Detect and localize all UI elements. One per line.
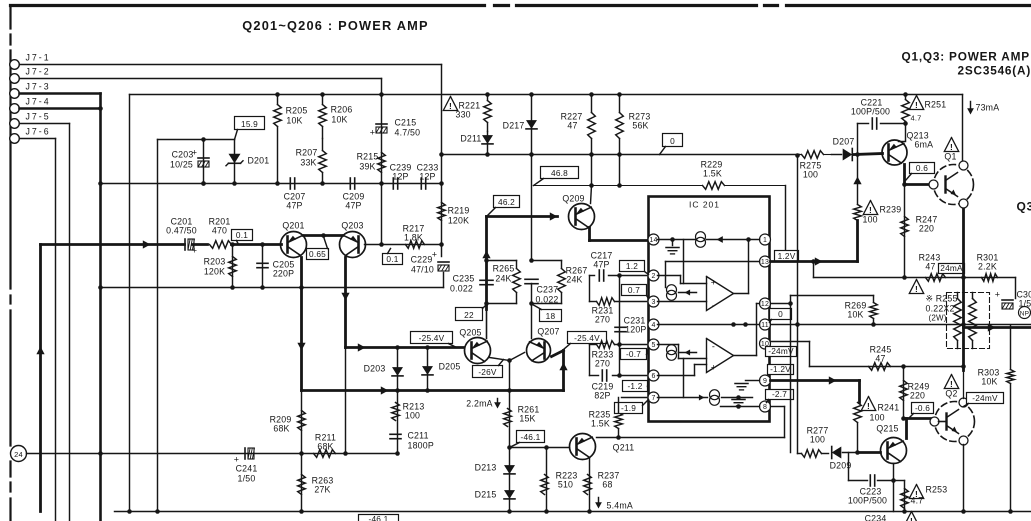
svg-text:0.65: 0.65 (309, 249, 326, 259)
svg-text:J7-2: J7-2 (26, 67, 51, 77)
svg-text:120K: 120K (448, 216, 469, 226)
svg-text:47: 47 (567, 121, 577, 131)
svg-text:24: 24 (14, 450, 23, 459)
svg-text:11: 11 (761, 322, 769, 329)
svg-text:1.8K: 1.8K (404, 233, 423, 243)
svg-text:C237: C237 (537, 285, 559, 295)
svg-text:4.7: 4.7 (911, 114, 922, 123)
svg-text:D203: D203 (364, 364, 386, 374)
svg-text:C215: C215 (395, 118, 417, 128)
svg-text:14: 14 (649, 237, 657, 244)
svg-text:-26V: -26V (478, 367, 497, 377)
svg-text:330: 330 (456, 110, 471, 120)
svg-text:+: + (432, 250, 437, 260)
svg-text:100P/500: 100P/500 (851, 107, 890, 117)
svg-text:4.7/50: 4.7/50 (395, 128, 421, 138)
svg-text:J7-1: J7-1 (26, 53, 51, 63)
svg-text:!: ! (867, 401, 870, 411)
svg-text:-1.9: -1.9 (621, 403, 636, 413)
svg-text:Q201~Q206 : POWER AMP: Q201~Q206 : POWER AMP (242, 18, 429, 33)
svg-text:2SC3546(A): 2SC3546(A) (958, 64, 1031, 78)
svg-text:10K: 10K (981, 377, 997, 387)
svg-text:12: 12 (761, 301, 769, 308)
svg-text:R207: R207 (296, 148, 318, 158)
svg-text:0: 0 (670, 136, 675, 146)
svg-text:1.5K: 1.5K (591, 419, 610, 429)
svg-text:Q215: Q215 (876, 424, 898, 434)
svg-text:D217: D217 (503, 121, 525, 131)
svg-text:R203: R203 (204, 257, 226, 267)
svg-text:27K: 27K (314, 485, 330, 495)
svg-text:0.22X2: 0.22X2 (926, 304, 955, 314)
svg-text:120P: 120P (625, 325, 646, 335)
svg-text:D205: D205 (439, 362, 461, 372)
svg-text:-46.1: -46.1 (369, 514, 389, 521)
svg-text:46.8: 46.8 (551, 168, 568, 178)
svg-text:68K: 68K (273, 424, 289, 434)
svg-text:100: 100 (810, 435, 825, 445)
svg-text:!: ! (950, 379, 953, 389)
svg-text:!: ! (915, 284, 918, 294)
svg-text:R241: R241 (878, 403, 900, 413)
svg-text:C203: C203 (172, 150, 194, 160)
svg-text:※ R255: ※ R255 (926, 294, 958, 304)
svg-text:47P: 47P (345, 201, 361, 211)
svg-text:-46.1: -46.1 (521, 432, 541, 442)
svg-text:NP: NP (1020, 311, 1029, 318)
svg-text:R215: R215 (357, 152, 379, 162)
svg-text:-2.7: -2.7 (772, 389, 787, 399)
svg-text:J7-3: J7-3 (26, 82, 51, 92)
svg-text:24K: 24K (566, 275, 582, 285)
svg-text:Q1,Q3: POWER AMP: Q1,Q3: POWER AMP (902, 50, 1030, 64)
svg-text:Q203: Q203 (341, 221, 363, 231)
svg-text:220: 220 (919, 224, 934, 234)
svg-text:D215: D215 (475, 490, 497, 500)
svg-text:68: 68 (602, 480, 612, 490)
svg-text:R253: R253 (926, 485, 948, 495)
svg-text:-24mV: -24mV (972, 393, 998, 403)
svg-text:470: 470 (212, 226, 227, 236)
svg-text:0.022: 0.022 (450, 284, 473, 294)
svg-text:1/50: 1/50 (238, 474, 256, 484)
svg-text:-1.2: -1.2 (627, 381, 642, 391)
svg-text:1800P: 1800P (408, 441, 434, 451)
svg-text:D211: D211 (460, 134, 481, 144)
svg-text:5.4mA: 5.4mA (607, 501, 633, 511)
svg-text:15.9: 15.9 (241, 119, 258, 129)
svg-text:R265: R265 (493, 264, 515, 274)
svg-text:J7-5: J7-5 (26, 112, 51, 122)
svg-text:24K: 24K (495, 274, 511, 284)
svg-text:220: 220 (910, 391, 925, 401)
svg-text:270: 270 (595, 359, 610, 369)
svg-text:!: ! (915, 100, 918, 110)
svg-text:33K: 33K (300, 158, 316, 168)
svg-text:0: 0 (778, 309, 783, 319)
svg-text:IC 201: IC 201 (689, 200, 720, 210)
svg-text:510: 510 (558, 480, 573, 490)
svg-text:13: 13 (761, 259, 769, 266)
svg-text:47P: 47P (286, 201, 302, 211)
svg-text:+: + (711, 278, 716, 288)
svg-text:3: 3 (651, 299, 655, 306)
svg-text:-25.4V: -25.4V (419, 333, 445, 343)
svg-text:D213: D213 (475, 463, 497, 473)
svg-text:C229: C229 (411, 255, 433, 265)
svg-text:+: + (370, 128, 375, 138)
svg-text:1.5K: 1.5K (703, 169, 722, 179)
svg-text:-: - (712, 301, 715, 311)
svg-text:7: 7 (651, 395, 655, 402)
svg-text:J7-6: J7-6 (26, 127, 51, 137)
svg-text:9: 9 (763, 378, 767, 385)
svg-text:!: ! (910, 516, 913, 521)
svg-text:1.2: 1.2 (626, 261, 638, 271)
svg-text:0.1: 0.1 (236, 230, 248, 240)
svg-text:6: 6 (651, 373, 655, 380)
svg-text:Q1: Q1 (944, 152, 956, 162)
svg-text:47P: 47P (593, 260, 609, 270)
svg-text:Q209: Q209 (562, 194, 584, 204)
svg-text:R206: R206 (331, 105, 353, 115)
svg-text:39K: 39K (359, 162, 375, 172)
svg-text:2: 2 (651, 273, 655, 280)
svg-text:120K: 120K (204, 267, 225, 277)
svg-text:C235: C235 (453, 274, 475, 284)
svg-text:0.6: 0.6 (916, 163, 928, 173)
svg-text:R205: R205 (286, 106, 308, 116)
svg-text:Q3: Q3 (1017, 200, 1031, 214)
svg-text:22: 22 (464, 310, 474, 320)
svg-text:12P: 12P (392, 172, 408, 182)
svg-text:D201: D201 (248, 156, 270, 166)
svg-text:4.7: 4.7 (911, 496, 924, 506)
svg-text:24mA: 24mA (940, 263, 963, 273)
svg-text:1.2V: 1.2V (778, 251, 796, 261)
svg-text:220P: 220P (273, 269, 294, 279)
svg-text:C211: C211 (408, 431, 429, 441)
svg-text:+: + (995, 290, 1000, 300)
svg-text:4: 4 (651, 322, 655, 329)
svg-text:100: 100 (870, 413, 885, 423)
svg-text:47: 47 (875, 354, 885, 364)
svg-text:270: 270 (595, 315, 610, 325)
svg-text:10/25: 10/25 (170, 160, 193, 170)
svg-text:R251: R251 (925, 100, 947, 110)
svg-text:-1.2V: -1.2V (770, 364, 791, 374)
svg-text:100: 100 (803, 170, 818, 180)
svg-text:Q2: Q2 (945, 389, 957, 399)
svg-text:-0.6: -0.6 (915, 403, 930, 413)
svg-text:Q211: Q211 (613, 443, 635, 453)
svg-text:47/10: 47/10 (411, 265, 434, 275)
svg-text:Q201: Q201 (282, 221, 304, 231)
svg-text:5: 5 (651, 342, 655, 349)
svg-text:-0.7: -0.7 (626, 349, 641, 359)
svg-text:-25.4V: -25.4V (574, 333, 600, 343)
svg-text:!: ! (950, 142, 953, 152)
svg-text:100: 100 (405, 411, 420, 421)
svg-text:C241: C241 (236, 464, 258, 474)
svg-text:100P/500: 100P/500 (848, 496, 887, 506)
svg-text:10K: 10K (847, 310, 863, 320)
svg-text:18: 18 (546, 311, 556, 321)
svg-text:56K: 56K (632, 121, 648, 131)
svg-text:0.47/50: 0.47/50 (166, 226, 197, 236)
svg-text:2.2mA: 2.2mA (466, 399, 492, 409)
svg-text:0.7: 0.7 (628, 285, 640, 295)
svg-text:(2W): (2W) (929, 314, 947, 323)
svg-text:15K: 15K (519, 414, 535, 424)
svg-text:68K: 68K (317, 442, 333, 452)
svg-text:!: ! (869, 205, 872, 215)
svg-text:R239: R239 (880, 205, 902, 215)
svg-text:10K: 10K (331, 115, 347, 125)
svg-text:+: + (711, 363, 716, 373)
svg-text:8: 8 (763, 404, 767, 411)
svg-text:47: 47 (925, 262, 935, 272)
svg-text:12P: 12P (419, 172, 435, 182)
svg-text:46.2: 46.2 (498, 197, 515, 207)
svg-text:10K: 10K (286, 116, 302, 126)
svg-text:82P: 82P (594, 391, 610, 401)
svg-text:6mA: 6mA (915, 140, 934, 150)
svg-text:C234: C234 (865, 514, 887, 521)
svg-text:1: 1 (763, 237, 767, 244)
svg-text:100: 100 (863, 215, 878, 225)
svg-text:2.2K: 2.2K (978, 262, 997, 272)
svg-text:!: ! (449, 101, 452, 111)
svg-text:-: - (712, 342, 715, 352)
svg-text:J7-4: J7-4 (26, 97, 51, 107)
svg-text:0.1: 0.1 (386, 254, 398, 264)
svg-text:+: + (192, 246, 197, 256)
svg-text:Q207: Q207 (537, 327, 559, 337)
svg-text:Q205: Q205 (459, 328, 481, 338)
svg-text:R219: R219 (448, 206, 470, 216)
svg-text:73mA: 73mA (976, 103, 1000, 113)
svg-text:D207: D207 (833, 137, 855, 147)
